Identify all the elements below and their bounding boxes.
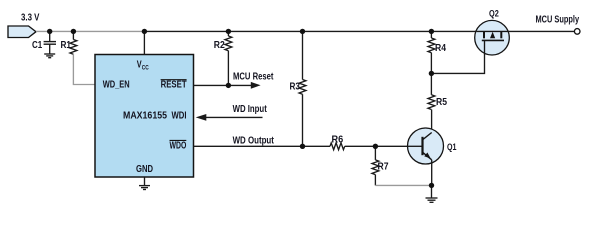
junction emitter/ground node [429, 183, 434, 188]
junction R3/rail [300, 29, 305, 34]
capacitor C1 [32, 31, 56, 53]
svg-text:WD Output: WD Output [233, 135, 275, 146]
junction R3/WD output wire [300, 144, 305, 149]
wire WD Output (IC WDO to R6) [194, 145, 331, 147]
pin WDO label (active low) [170, 140, 187, 151]
junction R2/rail [226, 29, 231, 34]
ground (below C1) [44, 54, 55, 58]
resistor R7 [372, 146, 389, 185]
node WD Input arrow and label [196, 104, 268, 121]
svg-text:R4: R4 [435, 43, 446, 54]
junction VCC/rail [142, 29, 147, 34]
svg-text:WDI: WDI [172, 111, 187, 122]
svg-text:WDO: WDO [170, 140, 187, 151]
junction C1/rail [47, 29, 52, 34]
op-amp U1 MAX16155 block body [95, 55, 194, 178]
wire top rail gray segment (flag to VCC junction) [36, 30, 144, 32]
junction R2/reset wire [226, 83, 231, 88]
resistor R6 [330, 134, 375, 149]
junction R6/R7/base node [373, 144, 378, 149]
wire VCC stem (rail to IC top) [143, 31, 145, 54]
resistor R5 [428, 73, 447, 132]
node 3.3V supply flag [8, 13, 40, 38]
svg-text:MCU Reset: MCU Reset [233, 72, 274, 83]
svg-text:GND: GND [136, 164, 153, 175]
node MCU Supply terminal and label [536, 14, 581, 34]
svg-text:MCU Supply: MCU Supply [536, 14, 580, 25]
junction R1/rail [71, 29, 76, 34]
svg-text:R3: R3 [290, 82, 301, 93]
svg-text:WD Input: WD Input [233, 104, 268, 115]
pin VCC label [137, 60, 149, 72]
svg-text:CC: CC [142, 65, 149, 72]
svg-text:Q1: Q1 [447, 142, 457, 153]
wire GND stem (IC bottom to ground) [144, 177, 146, 185]
svg-text:R6: R6 [332, 134, 344, 145]
wire RESET output (IC to MCU Reset arrow) [194, 84, 252, 86]
svg-text:Q2: Q2 [489, 9, 499, 20]
ground (below IC) [139, 186, 150, 190]
wire MCU Supply (Q2 drain to terminal) [508, 30, 575, 32]
transistor Q2 (P-channel MOSFET) [475, 9, 510, 56]
wire Q2 gate route (node to gate) [431, 54, 484, 74]
wire WD_EN (R1 bottom to IC pin, gray) [73, 54, 95, 84]
resistor R1 [61, 31, 77, 54]
junction R4/R5/gate node [429, 71, 434, 76]
svg-text:R1: R1 [61, 40, 72, 51]
svg-text:R2: R2 [214, 40, 225, 51]
resistor R2 [214, 31, 232, 85]
svg-text:R5: R5 [436, 97, 447, 108]
pin RESET label (active low) [161, 80, 187, 91]
ground (below Q1 emitter) [426, 185, 438, 202]
wire top rail black segment (VCC junction to Q2 source) [144, 30, 476, 32]
wire R7 return to emitter ground (gray) [375, 184, 431, 186]
resistor R3 [290, 31, 306, 146]
svg-text:RESET: RESET [161, 80, 187, 91]
svg-text:MAX16155: MAX16155 [123, 111, 167, 122]
svg-text:3.3 V: 3.3 V [21, 13, 40, 24]
svg-text:WD_EN: WD_EN [103, 80, 130, 91]
junction R4/rail [429, 29, 434, 34]
svg-text:C1: C1 [32, 40, 43, 51]
transistor Q1 (NPN) [408, 128, 458, 185]
node MCU Reset arrow and label [233, 72, 274, 89]
wire Q1 base (node to transistor) [375, 145, 421, 147]
resistor R4 [428, 31, 446, 73]
svg-text:R7: R7 [378, 162, 389, 173]
